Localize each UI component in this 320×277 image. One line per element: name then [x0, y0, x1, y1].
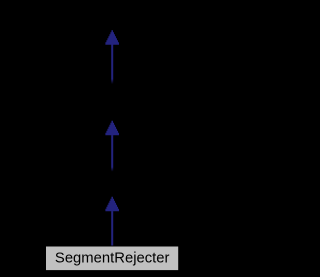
svg-text:SegmentRejecter: SegmentRejecter — [55, 251, 170, 267]
